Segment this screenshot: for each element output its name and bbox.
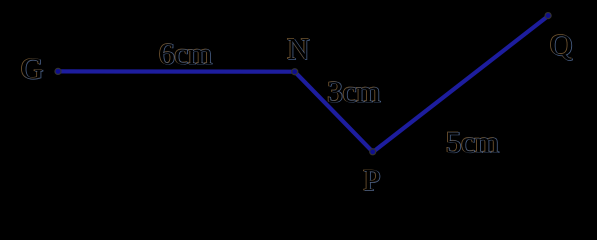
label 5cm [445,125,499,160]
wire segment GN (6cm) [58,69,295,73]
svg-text:6cm: 6cm [159,37,212,71]
wire segment NP (3cm) [295,72,373,152]
label N [287,32,311,67]
node G (point marker) [55,68,61,74]
svg-text:P: P [363,163,380,197]
wire segment PQ (5cm) [373,16,548,152]
label Q [549,28,573,63]
node P (point marker) [370,149,376,155]
svg-text:G: G [21,52,43,86]
node Q (point marker) [545,13,551,19]
svg-text:N: N [287,32,309,66]
node N (point marker) [292,69,298,75]
svg-text:5cm: 5cm [446,125,499,159]
label G [20,51,44,86]
label P [363,163,382,198]
label 3cm [327,75,381,110]
label 6cm [158,37,212,72]
svg-text:3cm: 3cm [327,75,380,109]
svg-text:Q: Q [550,28,572,62]
